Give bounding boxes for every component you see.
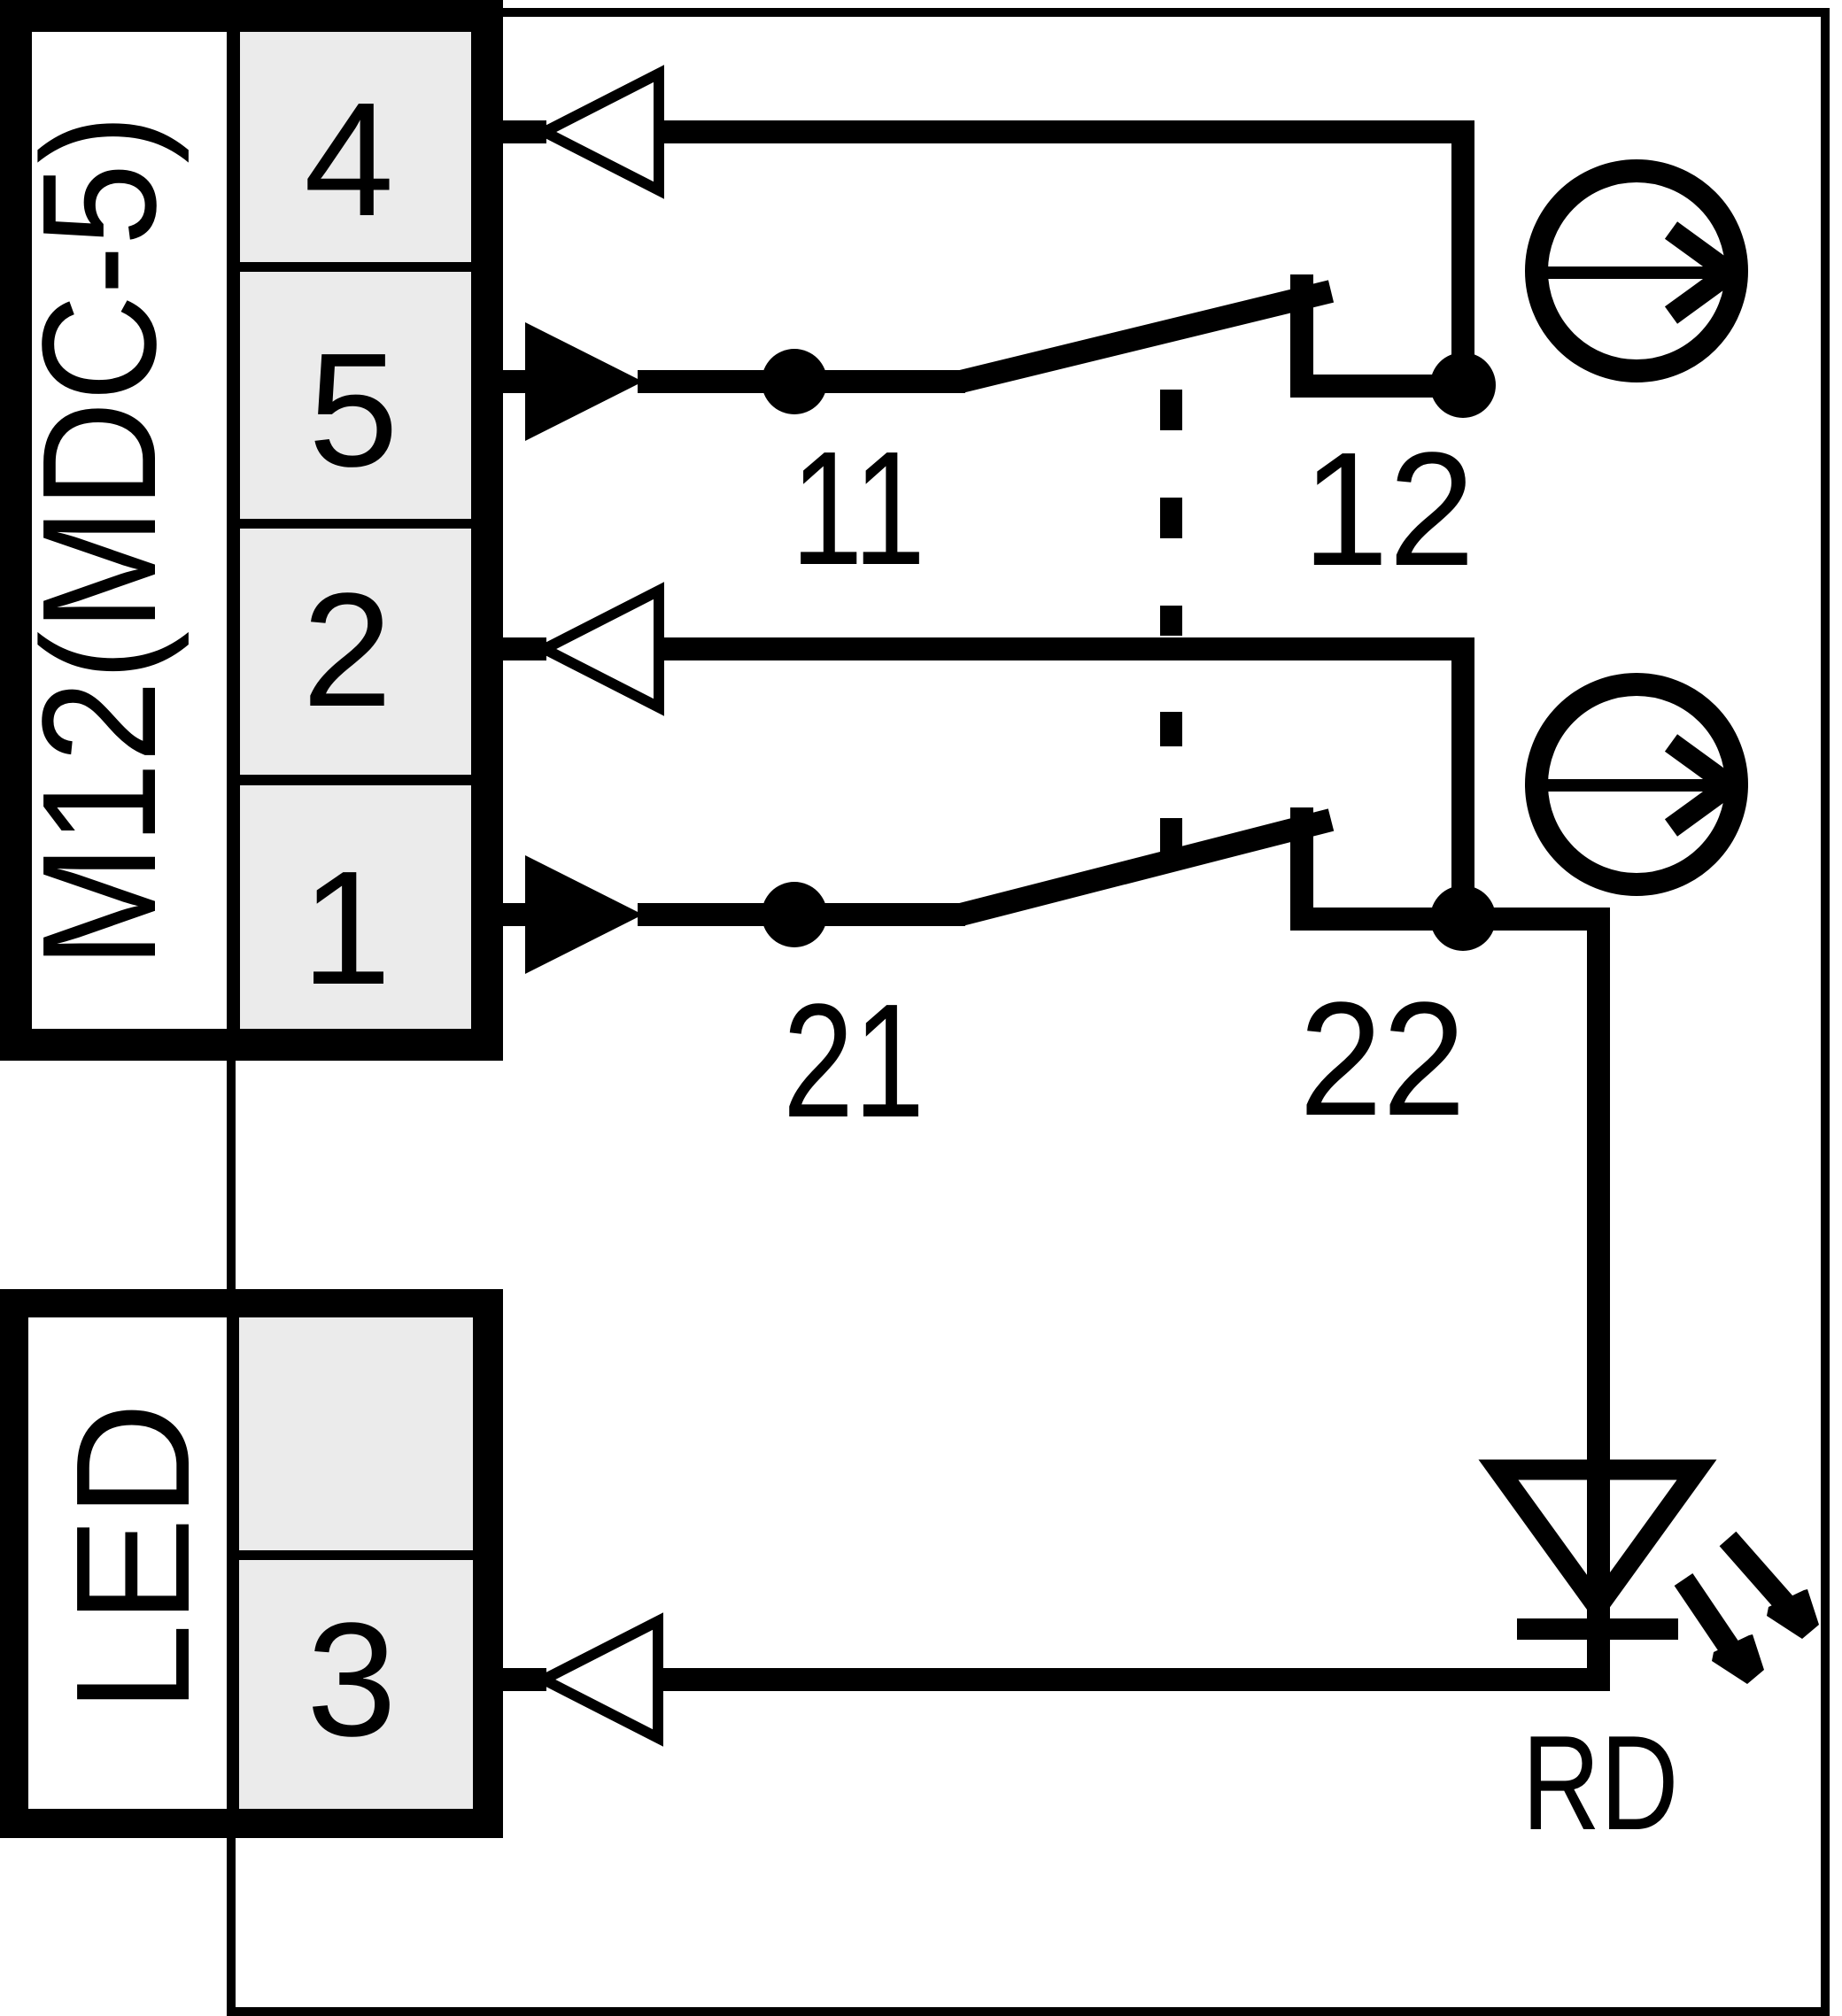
svg-text:LED: LED — [42, 1402, 223, 1712]
svg-text:12: 12 — [1303, 418, 1475, 599]
svg-text:22: 22 — [1299, 968, 1466, 1149]
svg-text:RD: RD — [1522, 1708, 1679, 1858]
svg-text:11: 11 — [791, 417, 925, 599]
svg-text:21: 21 — [783, 969, 925, 1151]
svg-text:4: 4 — [304, 68, 394, 250]
svg-text:3: 3 — [306, 1588, 397, 1770]
svg-text:M12(MDC-5): M12(MDC-5) — [8, 114, 190, 968]
svg-text:2: 2 — [302, 559, 392, 740]
svg-text:1: 1 — [301, 837, 391, 1018]
svg-text:5: 5 — [308, 319, 399, 500]
